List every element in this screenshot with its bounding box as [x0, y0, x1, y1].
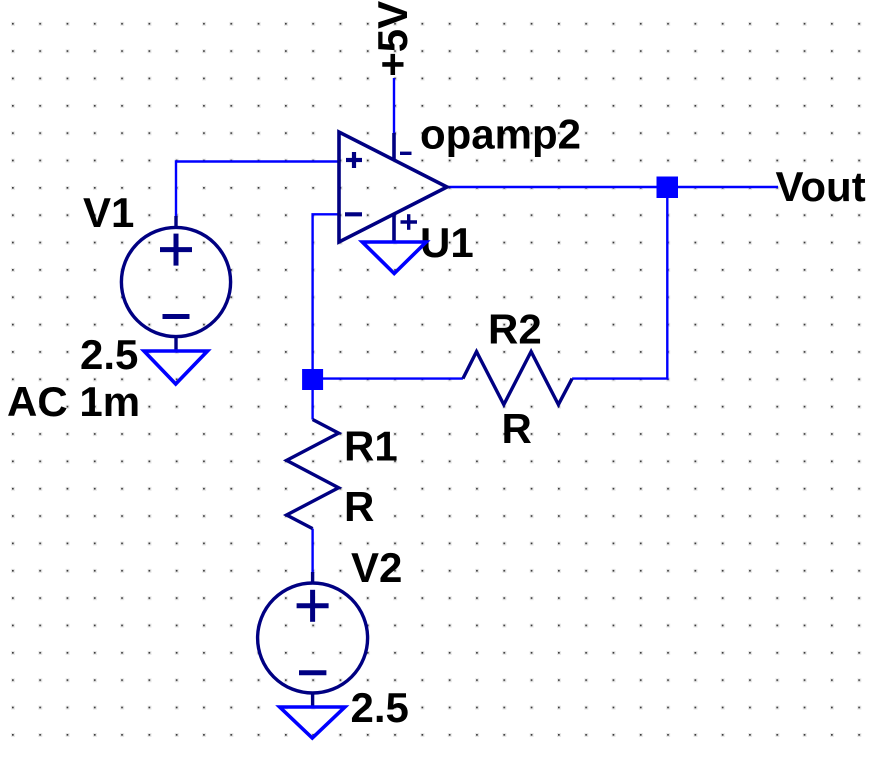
wire op-amp output to Vout [447, 186, 778, 188]
ground below V2 [280, 707, 345, 738]
wire Vout node down to R2 right [572, 187, 667, 379]
voltage source V1 [121, 216, 230, 351]
node feedback junction [302, 369, 323, 390]
svg-text:R2: R2 [488, 305, 542, 352]
svg-text:V2: V2 [351, 544, 402, 591]
svg-text:opamp2: opamp2 [420, 111, 581, 158]
resistor R2 [463, 352, 572, 405]
svg-text:2.5: 2.5 [80, 331, 138, 378]
svg-text:V1: V1 [83, 189, 134, 236]
op-amp U1 [339, 132, 447, 242]
wire +5V to op-amp V- pin [393, 78, 395, 133]
voltage source V2 [258, 572, 368, 707]
ground below V1 [144, 351, 208, 384]
node Vout junction [657, 177, 679, 199]
svg-text:AC 1m: AC 1m [7, 378, 140, 425]
ground below op-amp [362, 242, 426, 274]
svg-text:R: R [344, 483, 374, 530]
wire R1 to V2 [311, 529, 313, 572]
svg-text:2.5: 2.5 [351, 684, 409, 731]
wire V1 plus to op-amp noninverting input [176, 162, 339, 217]
wire junction to R2 left [313, 377, 463, 379]
wire junction down to R1 [311, 389, 313, 420]
svg-text:+5V: +5V [369, 1, 416, 77]
resistor R1 [287, 420, 339, 529]
svg-text:R: R [502, 405, 532, 452]
wire junction up to op-amp inverting input [313, 214, 339, 370]
svg-text:Vout: Vout [776, 163, 866, 210]
svg-text:R1: R1 [344, 423, 398, 470]
